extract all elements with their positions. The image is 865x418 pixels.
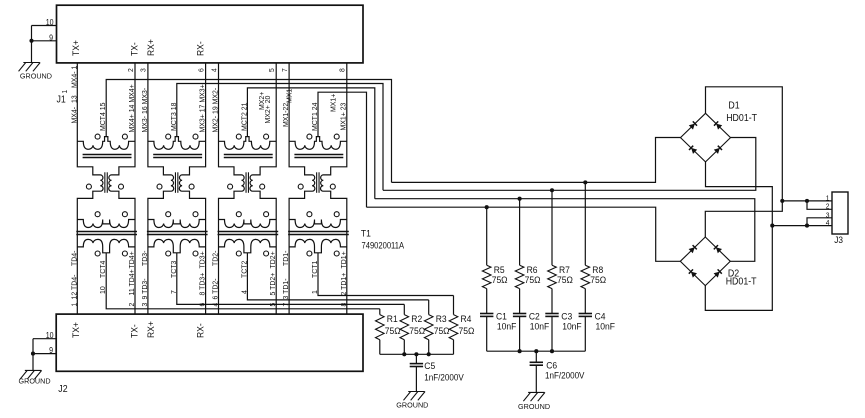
resistor R5 75&#937; (482, 265, 507, 289)
polarity dot T1 ch2 choke right (260, 184, 265, 189)
svg-text:TD4-: TD4- (70, 250, 78, 266)
svg-text:8 TD3+: 8 TD3+ (198, 273, 206, 296)
junction J2 pins 9/10 (31, 352, 35, 356)
svg-text:7: 7 (170, 290, 178, 294)
wire C2 to rail (519, 317, 521, 352)
wire net TCT3: centre tap to R2 (177, 253, 404, 305)
svg-text:TX+: TX+ (71, 40, 81, 56)
T1 ch3 line-side winding (MX3) (148, 137, 206, 150)
polarity dot T1 ch1 winding1 left (307, 134, 312, 139)
resistor R1 75&#937; (375, 313, 400, 339)
wire J1 pin 4 / MX2- to T1, left outline (219, 63, 245, 314)
T1 ch4 PHY-side winding (TD4) (77, 239, 135, 252)
junction V+ / J3 pin1 (780, 199, 784, 203)
polarity dot T1 ch3 choke left (157, 184, 162, 189)
J1 pin 9 wire (32, 40, 57, 42)
T1 ch2 middle winding (219, 220, 277, 228)
resistor R6 75&#937; (515, 265, 540, 289)
ground (J2 shield) (19, 370, 51, 385)
svg-text:R2: R2 (411, 313, 422, 324)
svg-text:MX4- 1: MX4- 1 (70, 66, 78, 88)
svg-text:MCT3 18: MCT3 18 (170, 102, 178, 131)
resistor R7 75&#937; (548, 265, 573, 289)
svg-text:10nF: 10nF (562, 321, 582, 332)
svg-text:10: 10 (46, 331, 54, 340)
wire J1 pin 2 / MX4+ to T1, right outline (109, 63, 135, 314)
T1 ch4 line-side winding (MX4) (77, 137, 135, 150)
svg-text:MCT2 21: MCT2 21 (240, 102, 248, 131)
J2 pin 9 wire (33, 353, 56, 355)
svg-text:9 TD3-: 9 TD3- (141, 278, 149, 300)
wire net MCT1 long run to D2 left (367, 207, 681, 261)
svg-text:4: 4 (240, 290, 248, 294)
wire J3 pin 3 (807, 218, 832, 226)
svg-text:3: 3 (141, 68, 148, 72)
svg-text:8: 8 (339, 68, 346, 72)
svg-text:D1: D1 (728, 100, 739, 111)
wire V+ rail: D1 top / D2 top to J3 pins 1-2 (705, 87, 782, 237)
polarity dot T1 ch1 choke left (298, 184, 303, 189)
wire R8 to C4 (584, 289, 586, 314)
svg-text:MX4+ 14 MX4+: MX4+ 14 MX4+ (128, 84, 136, 132)
svg-text:RX+: RX+ (146, 321, 156, 338)
svg-text:R4: R4 (461, 313, 472, 324)
svg-text:75Ω: 75Ω (434, 326, 450, 337)
svg-text:MX2+: MX2+ (258, 92, 266, 110)
T1 ch1 line-side winding (MX1) (289, 137, 347, 150)
svg-text:HD01-T: HD01-T (726, 113, 757, 124)
wire net MCT4 long run to D1 left (392, 138, 681, 183)
polarity dot T1 ch3 choke right (189, 184, 194, 189)
T1 ch4 common-mode choke core (104, 172, 106, 193)
svg-text:HD01-T: HD01-T (726, 276, 757, 287)
wire C3 to rail (551, 317, 553, 352)
T1 ch2 line-side winding (MX2) (219, 137, 277, 150)
transformer T1 channel 4 (76, 63, 391, 314)
svg-text:9: 9 (49, 33, 53, 42)
svg-text:3 TD1-: 3 TD1- (282, 278, 290, 300)
svg-text:RX-: RX- (195, 323, 205, 338)
svg-text:TX-: TX- (129, 324, 139, 338)
polarity dot T1 ch3 winding2 right (193, 212, 198, 217)
wire net TCT1: centre tap to R4 (318, 253, 454, 296)
T1 ch3 transformer core (top) (153, 154, 202, 156)
wire J3 pin 1 (782, 200, 832, 202)
svg-text:MX1-22: MX1-22 (282, 103, 290, 127)
polarity dot T1 ch1 winding2 right (334, 212, 339, 217)
T1 ch2 PHY-side winding (TD2) (219, 239, 277, 252)
T1 ch4 transformer core (top) (83, 154, 132, 156)
transformer T1 channel 1 (288, 63, 453, 314)
wire J1 pin 7 / MX1- to T1, left outline (289, 63, 315, 314)
svg-text:5: 5 (270, 303, 277, 307)
polarity dot T1 ch2 winding2 right (264, 212, 269, 217)
T1 ch3 common-mode choke core (174, 172, 176, 193)
svg-text:MX1-: MX1- (285, 86, 293, 103)
svg-text:6 TD2-: 6 TD2- (211, 278, 219, 300)
wire R2 to rail (403, 340, 405, 355)
svg-text:75Ω: 75Ω (409, 326, 425, 337)
wire R1-R4 common rail (380, 353, 454, 355)
svg-text:TCT3: TCT3 (170, 261, 178, 278)
polarity dot T1 ch2 choke left (228, 184, 233, 189)
transformer T1 channel 3 (147, 63, 404, 314)
connector J2 body (56, 314, 363, 371)
svg-text:4: 4 (826, 219, 830, 227)
svg-text:TD4+: TD4+ (128, 251, 136, 268)
J1 pin 10 wire (32, 25, 57, 27)
T1 ch1 transformer core (top) (294, 154, 343, 156)
wire J1 pin 8 / MX1+ to T1, right outline (321, 63, 347, 314)
wire R6 to C2 (519, 289, 521, 314)
capacitor C2 10nF (513, 314, 526, 317)
svg-text:8: 8 (341, 303, 348, 307)
svg-text:13: 13 (70, 95, 78, 103)
wire J1 pin 6 / MX3+ to T1, right outline (179, 63, 205, 314)
T1 ch3 PHY-side winding (TD3) (148, 239, 206, 252)
svg-text:GROUND: GROUND (19, 377, 51, 386)
capacitor C1 10nF (480, 314, 493, 317)
wire TCT2 to R3 (428, 300, 430, 315)
svg-text:1nF/2000V: 1nF/2000V (424, 372, 464, 383)
wire C5 to ground (415, 367, 417, 392)
wire J1 pin 3 / MX3- to T1, left outline (148, 63, 174, 314)
ground (J1 shield) (19, 63, 52, 81)
wire C6 to ground (535, 365, 537, 392)
resistor R2 75&#937; (400, 313, 425, 339)
T1 ch1 transformer core (bottom) (288, 231, 349, 233)
svg-text:11 TD4+: 11 TD4+ (128, 269, 136, 295)
svg-text:GROUND: GROUND (20, 72, 52, 81)
wire V- rail: D1 bottom / D2 bottom to J3 pins 3-4 (705, 162, 772, 311)
svg-text:C6: C6 (546, 360, 557, 371)
wire J2 ground stub (32, 339, 34, 371)
svg-text:3: 3 (142, 303, 149, 307)
polarity dot T1 ch4 winding1 right (122, 134, 127, 139)
wire TCT4 to R1 (379, 309, 381, 315)
svg-text:75Ω: 75Ω (459, 326, 475, 337)
polarity dot T1 ch4 winding1 left (95, 134, 100, 139)
svg-text:MX3- 16 MX3-: MX3- 16 MX3- (141, 87, 149, 132)
polarity dot T1 ch1 winding1 right (334, 134, 339, 139)
capacitor C5 1nF/2000V (415, 354, 417, 363)
svg-text:TD1-: TD1- (282, 250, 290, 266)
svg-text:10: 10 (46, 18, 54, 27)
svg-text:C2: C2 (529, 311, 540, 322)
T1 ch1 PHY-side winding (TD1) (289, 239, 347, 252)
svg-text:5 TD2+: 5 TD2+ (269, 273, 277, 296)
polarity dot T1 ch2 winding2 left (236, 212, 241, 217)
polarity dot T1 ch1 winding3 right (334, 251, 339, 256)
svg-text:2: 2 (129, 303, 136, 307)
svg-text:2: 2 (826, 202, 830, 210)
junction rail/R3 (427, 352, 431, 356)
junction rail/C5 (414, 352, 418, 356)
svg-text:TCT4: TCT4 (99, 261, 107, 278)
polarity dot T1 ch2 winding3 right (264, 251, 269, 256)
wire J1 ground stub (31, 26, 33, 63)
T1 ch1 middle winding (289, 220, 347, 228)
junction V- / J3 pin4 (770, 224, 774, 228)
polarity dot T1 ch4 winding3 left (95, 251, 100, 256)
polarity dot T1 ch3 winding1 left (166, 134, 171, 139)
svg-text:1: 1 (311, 290, 319, 294)
ground (C6) (518, 392, 550, 411)
polarity dot T1 ch1 winding2 left (307, 212, 312, 217)
svg-text:1: 1 (71, 303, 78, 307)
wire net MCT2 long run to D2 right (375, 199, 755, 262)
svg-text:T1: T1 (361, 228, 371, 239)
svg-text:J2: J2 (58, 384, 67, 395)
T1 ch3 transformer core (bottom) (147, 231, 208, 233)
svg-text:TD2+: TD2+ (269, 251, 277, 268)
resistor R4 75&#937; (449, 313, 474, 339)
svg-text:C4: C4 (595, 311, 606, 322)
polarity dot T1 ch4 winding3 right (122, 251, 127, 256)
resistor R3 75&#937; (424, 313, 449, 339)
wire J1 pin 1 / MX4- to T1, left outline (77, 63, 103, 314)
svg-text:75Ω: 75Ω (385, 326, 401, 337)
wire TCT1 to R4 (453, 296, 455, 315)
svg-text:2: 2 (128, 68, 135, 72)
svg-text:MCT1 24: MCT1 24 (311, 102, 319, 131)
svg-text:C3: C3 (561, 311, 572, 322)
junction J3 pins 1-2 (805, 199, 809, 203)
svg-text:MX2- 19 MX2-: MX2- 19 MX2- (211, 87, 219, 132)
svg-text:75Ω: 75Ω (525, 275, 541, 286)
T1 ch4 middle winding (77, 220, 135, 228)
svg-text:10nF: 10nF (596, 321, 616, 332)
svg-text:9: 9 (49, 346, 53, 355)
T1 ch1 common-mode choke core (316, 172, 318, 193)
svg-text:12 TD4-: 12 TD4- (70, 274, 78, 300)
svg-text:4: 4 (212, 303, 219, 307)
svg-text:J1: J1 (57, 94, 66, 105)
svg-text:TCT2: TCT2 (240, 261, 248, 278)
svg-text:TX+: TX+ (71, 322, 81, 338)
svg-text:GROUND: GROUND (518, 402, 550, 411)
wire net MCT1: centre tap to bridge (318, 92, 367, 207)
svg-text:1: 1 (826, 194, 830, 202)
T1 ch2 transformer core (top) (224, 154, 273, 156)
svg-text:J3: J3 (834, 235, 843, 246)
svg-text:749020011A: 749020011A (362, 240, 405, 251)
polarity dot T1 ch4 winding2 right (122, 212, 127, 217)
wire R4 to rail (453, 340, 455, 355)
svg-text:10nF: 10nF (497, 321, 517, 332)
svg-text:R3: R3 (436, 313, 447, 324)
wire R1 to rail (379, 340, 381, 355)
polarity dot T1 ch3 winding3 left (166, 251, 171, 256)
diode bridge D1 (HD01-T) (681, 100, 758, 162)
svg-text:RX+: RX+ (146, 39, 156, 56)
svg-text:TX-: TX- (129, 42, 139, 56)
svg-text:C1: C1 (496, 311, 507, 322)
wire J3 pin 4 (772, 225, 832, 227)
junction R5 top (485, 205, 489, 209)
resistor R8 75&#937; (581, 265, 606, 289)
polarity dot T1 ch1 choke right (330, 184, 335, 189)
junction R6 top (518, 197, 522, 201)
svg-text:4: 4 (211, 68, 218, 72)
svg-text:7: 7 (282, 68, 289, 72)
svg-text:6: 6 (199, 303, 206, 307)
svg-text:TD1+: TD1+ (340, 251, 348, 268)
junction R8 top (583, 180, 587, 184)
wire C1-C4 common rail (487, 350, 586, 352)
polarity dot T1 ch2 winding1 left (236, 134, 241, 139)
T1 ch3 middle winding (148, 220, 206, 228)
capacitor C3 10nF (545, 314, 558, 317)
svg-text:75Ω: 75Ω (590, 275, 606, 286)
polarity dot T1 ch1 winding3 left (307, 251, 312, 256)
junction rail/C3 (550, 349, 554, 353)
svg-text:1nF/2000V: 1nF/2000V (545, 370, 585, 381)
wire R3 to rail (428, 340, 430, 355)
svg-text:MX1+ 23: MX1+ 23 (339, 103, 347, 131)
diode bridge D2 (HD01-T) (680, 237, 757, 286)
svg-text:6: 6 (198, 68, 205, 72)
wire net TCT2: centre tap to R3 (247, 253, 428, 300)
wire net MCT3 long run to D1 right (383, 138, 756, 191)
junction rail/C2 (518, 349, 522, 353)
J2 pin 10 wire (33, 338, 56, 340)
polarity dot T1 ch4 choke left (86, 184, 91, 189)
wire net MCT4: centre tap to bridge (106, 80, 391, 183)
polarity dot T1 ch3 winding1 right (193, 134, 198, 139)
svg-text:TD3+: TD3+ (198, 251, 206, 268)
junction J1 pins 9/10 (29, 39, 33, 43)
wire J1 pin 5 / MX2+ to T1, right outline (250, 63, 276, 314)
polarity dot T1 ch2 winding1 right (264, 134, 269, 139)
svg-text:MX4-: MX4- (70, 106, 78, 123)
svg-text:1: 1 (62, 90, 69, 94)
capacitor C6 1nF/2000V (535, 351, 537, 362)
svg-text:75Ω: 75Ω (492, 275, 508, 286)
svg-text:TD3-: TD3- (141, 250, 149, 266)
polarity dot T1 ch3 winding2 left (166, 212, 171, 217)
svg-text:TD2-: TD2- (211, 250, 219, 266)
wire R7 to C3 (551, 289, 553, 314)
wire TCT3 to R2 (403, 304, 405, 314)
junction rail/C6 (534, 349, 538, 353)
T1 ch2 transformer core (bottom) (218, 231, 279, 233)
svg-text:MCT4 15: MCT4 15 (99, 102, 107, 131)
wire J3 pin 2 (807, 201, 832, 209)
svg-text:10nF: 10nF (530, 321, 550, 332)
svg-text:7: 7 (283, 303, 290, 307)
svg-text:GROUND: GROUND (396, 400, 428, 409)
svg-text:RX-: RX- (195, 41, 205, 56)
wire C4 to rail (584, 317, 586, 352)
wire R5 to C1 (486, 289, 488, 314)
svg-text:MX3+ 17 MX3+: MX3+ 17 MX3+ (198, 84, 206, 132)
wire net MCT3: centre tap to bridge (177, 84, 383, 191)
wire net TCT4: centre tap to R1 (106, 253, 380, 309)
polarity dot T1 ch3 winding3 right (193, 251, 198, 256)
T1 ch2 common-mode choke core (245, 172, 247, 193)
junction rail/R2 (402, 352, 406, 356)
ground (C5) (396, 392, 428, 410)
junction J3 pins 3-4 (805, 224, 809, 228)
polarity dot T1 ch2 winding3 left (236, 251, 241, 256)
svg-text:R1: R1 (387, 313, 398, 324)
svg-text:TCT1: TCT1 (311, 261, 319, 278)
polarity dot T1 ch4 winding2 left (95, 212, 100, 217)
svg-text:5: 5 (269, 68, 276, 72)
connector J1 body (57, 5, 364, 63)
polarity dot T1 ch4 choke right (119, 184, 124, 189)
svg-text:C5: C5 (424, 361, 435, 372)
capacitor C4 10nF (579, 314, 592, 317)
transformer T1 channel 2 (218, 63, 429, 314)
connector J3 body (832, 192, 848, 234)
svg-text:75Ω: 75Ω (557, 275, 573, 286)
svg-text:2 TD1+: 2 TD1+ (340, 273, 348, 296)
T1 ch4 transformer core (bottom) (76, 231, 137, 233)
wire net MCT2: centre tap to bridge (247, 88, 374, 199)
svg-text:10: 10 (99, 286, 107, 294)
wire C1 to rail (486, 317, 488, 352)
svg-text:MX1+: MX1+ (329, 94, 337, 112)
junction R7 top (550, 188, 554, 192)
